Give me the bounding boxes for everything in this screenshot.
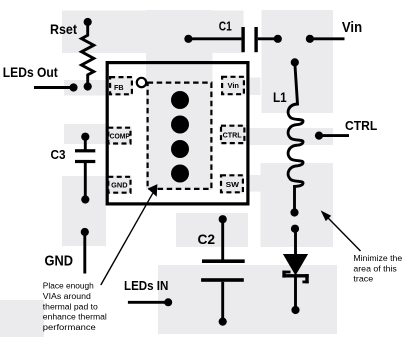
svg-text:Place enough: Place enough <box>43 282 94 291</box>
svg-text:Vin: Vin <box>342 20 362 36</box>
svg-text:CTRL: CTRL <box>345 118 377 133</box>
svg-text:VIAs around: VIAs around <box>43 292 91 301</box>
svg-text:area of this: area of this <box>353 263 396 273</box>
svg-text:FB: FB <box>114 83 124 92</box>
svg-text:GND: GND <box>111 181 127 190</box>
svg-text:Minimize the: Minimize the <box>353 253 402 263</box>
svg-text:CTRL: CTRL <box>223 131 243 140</box>
svg-text:SW: SW <box>226 180 240 189</box>
svg-text:trace: trace <box>353 274 373 284</box>
svg-text:Rset: Rset <box>50 21 77 37</box>
svg-text:L1: L1 <box>273 89 287 105</box>
svg-text:GND: GND <box>45 254 74 270</box>
svg-text:C3: C3 <box>51 148 66 162</box>
svg-text:Vin: Vin <box>228 81 240 90</box>
svg-text:thermal pad to: thermal pad to <box>43 302 99 311</box>
svg-text:LEDs Out: LEDs Out <box>3 65 58 80</box>
svg-text:LEDs IN: LEDs IN <box>124 278 168 293</box>
svg-text:C2: C2 <box>198 231 216 247</box>
svg-text:enhance thermal: enhance thermal <box>43 313 107 322</box>
svg-text:COMP: COMP <box>110 132 130 141</box>
svg-text:performance: performance <box>43 323 97 332</box>
svg-text:C1: C1 <box>219 19 232 34</box>
